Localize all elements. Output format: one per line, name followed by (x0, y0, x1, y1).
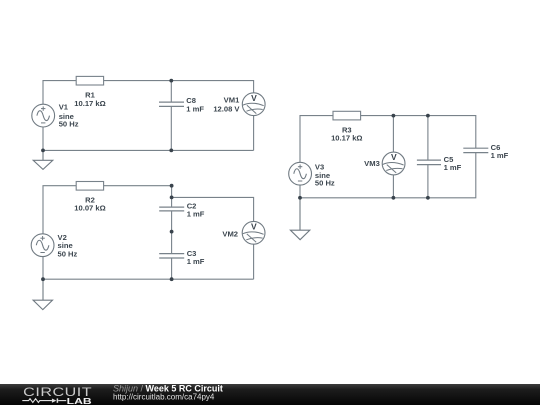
junction: circuit1 bottom left node (41, 149, 45, 153)
label C3 (187, 249, 205, 266)
voltmeter VM3 (382, 152, 405, 175)
label V2 (58, 233, 78, 259)
wire: circuit2 VM2 branch (172, 197, 254, 279)
svg-text:50 Hz: 50 Hz (315, 179, 335, 188)
voltage source V2 (31, 234, 54, 257)
label R3 (331, 126, 362, 143)
junction: circuit2 bottom left node (41, 277, 45, 281)
label C5 (444, 155, 462, 172)
svg-text:50 Hz: 50 Hz (59, 120, 79, 129)
capacitor C2 (159, 207, 184, 211)
svg-text:V: V (251, 93, 257, 103)
wire: circuit2 top rail (43, 186, 172, 234)
ground (circuit2) (33, 279, 52, 309)
junction: circuit2 top node (170, 184, 174, 188)
svg-text:10.17 kΩ: 10.17 kΩ (331, 134, 362, 143)
label C6 (491, 143, 509, 160)
svg-text:VM1: VM1 (224, 96, 240, 105)
svg-text:1 mF: 1 mF (187, 257, 205, 266)
voltage source V1 (32, 104, 55, 127)
wire: circuit2 middle branch vertical (171, 186, 173, 280)
wire: circuit3 VM3 vertical (392, 116, 394, 198)
voltage source V3 (289, 162, 312, 185)
junction: circuit3 ground node (298, 196, 302, 200)
capacitor C3 (159, 254, 184, 258)
label VM3 (364, 159, 380, 168)
wire: circuit1 bottom rail (43, 127, 254, 150)
wire: circuit2 bottom rail (43, 257, 254, 280)
ground (circuit3) (290, 198, 309, 240)
label VM1 (213, 96, 240, 114)
capacitor C8 (159, 102, 184, 106)
svg-text:http://circuitlab.com/ca74py4: http://circuitlab.com/ca74py4 (113, 393, 215, 402)
label C8 (186, 96, 204, 113)
voltmeter VM2 (242, 221, 265, 244)
junction: circuit1 bottom C8 node (169, 149, 173, 153)
ground (circuit1) (33, 150, 53, 169)
resistor R1 (76, 76, 103, 85)
wire: circuit3 C5 vertical (427, 116, 429, 198)
wire: circuit1 top rail (43, 81, 254, 105)
svg-text:12.08 V: 12.08 V (213, 105, 240, 114)
voltmeter VM1 (242, 93, 265, 116)
svg-text:1 mF: 1 mF (186, 104, 204, 113)
svg-text:V: V (251, 222, 257, 232)
logo LAB text (67, 396, 92, 405)
svg-text:1 mF: 1 mF (491, 151, 509, 160)
wire: circuit3 bottom rail (300, 153, 476, 198)
label C2 (187, 201, 205, 218)
footer title line (113, 383, 223, 401)
wire: circuit3 top rail (300, 116, 476, 163)
svg-text:50 Hz: 50 Hz (58, 250, 78, 259)
svg-text:V1: V1 (59, 103, 69, 112)
svg-text:10.17 kΩ: 10.17 kΩ (74, 99, 105, 108)
svg-text:1 mF: 1 mF (187, 210, 205, 219)
wire: circuit1 VM1 bottom lead (253, 116, 255, 151)
label VM2 (222, 230, 238, 239)
label R2 (74, 196, 105, 213)
junction: circuit1 top C8 node (169, 79, 173, 83)
resistor R2 (76, 182, 103, 191)
junction: circuit3 top VM3 node (392, 114, 396, 118)
svg-text:V: V (391, 152, 397, 162)
label V1 (59, 103, 79, 129)
resistor R3 (333, 111, 361, 120)
junction: circuit2 C2-C3 node (170, 230, 174, 234)
junction: circuit3 top C5 node (426, 114, 430, 118)
capacitor C5 (417, 160, 441, 165)
svg-text:10.07 kΩ: 10.07 kΩ (74, 204, 105, 213)
svg-text:VM2: VM2 (222, 230, 238, 239)
logo CircuitLab wordmark (23, 385, 92, 399)
logo diode (52, 398, 66, 402)
capacitor C6 (463, 148, 488, 152)
svg-text:LAB: LAB (67, 396, 92, 405)
svg-text:1 mF: 1 mF (444, 163, 462, 172)
label R1 (74, 91, 105, 109)
label V3 (315, 163, 335, 188)
footer bar (0, 384, 540, 405)
logo resistor zigzag (22, 399, 52, 403)
junction: circuit2 bottom middle node (170, 277, 174, 281)
junction: circuit2 VM2 tap node (170, 196, 174, 200)
junction: circuit3 bottom VM3 node (392, 196, 396, 200)
wire: circuit1 C8 branch vertical (170, 81, 172, 151)
svg-text:VM3: VM3 (364, 159, 380, 168)
junction: circuit3 bottom C5 node (426, 196, 430, 200)
